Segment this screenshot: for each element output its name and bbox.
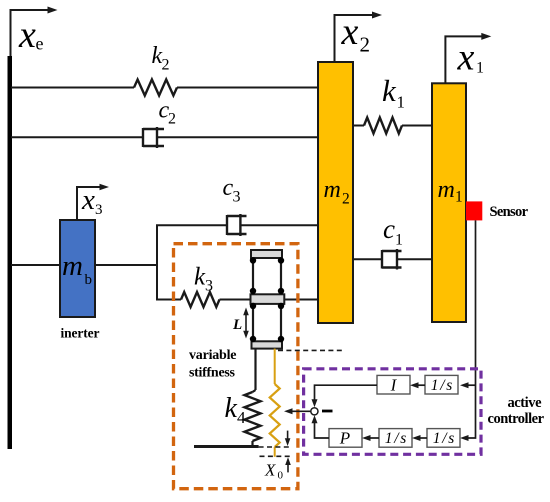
X0 down arrow (285, 431, 291, 446)
branch wire to top 1/s (464, 384, 476, 386)
spring k4 (245, 392, 261, 441)
mechanism lower links (252, 304, 254, 341)
svg-text:P: P (339, 429, 350, 448)
dashed line at ground level (259, 446, 289, 448)
output wire to spring (288, 410, 311, 412)
X0 up arrow (285, 457, 291, 472)
coordinate arrow x_1 (445, 33, 491, 83)
svg-text:x: x (341, 11, 359, 53)
arrow down into summer (312, 399, 318, 407)
svg-text:X: X (264, 461, 276, 480)
block I (377, 375, 410, 394)
svg-text:Sensor: Sensor (490, 204, 529, 220)
arrow into orange spring (284, 408, 293, 414)
mechanism pivot joints (250, 257, 284, 342)
svg-text:active: active (508, 395, 543, 411)
svg-text:3: 3 (233, 189, 241, 206)
svg-text:L: L (232, 317, 242, 333)
wire k1 right (402, 125, 432, 127)
svg-text:2: 2 (360, 33, 371, 57)
block 1/s (middle) (379, 429, 412, 448)
mechanism top bar (251, 250, 282, 258)
svg-text:x: x (18, 14, 36, 56)
coordinate arrow x_2 (335, 12, 383, 63)
svg-text:0: 0 (278, 470, 284, 482)
coordinate arrow x_3 (77, 184, 109, 220)
arrow into top 1/s (460, 382, 469, 388)
svg-text:1: 1 (476, 60, 484, 77)
svg-text:1: 1 (395, 232, 403, 249)
svg-text:1: 1 (397, 93, 406, 112)
dashed line at spring bottom (260, 455, 291, 457)
sensor signal wire (464, 220, 476, 438)
arrow 1/s to I (410, 382, 425, 388)
svg-text:k: k (225, 393, 238, 424)
vertical branch wire (156, 225, 158, 299)
spring k1 (364, 118, 402, 134)
coordinate arrow x_e (11, 7, 58, 57)
damper c1 (382, 249, 402, 270)
wire mechanism to m2 (283, 299, 319, 301)
svg-text:1/s: 1/s (431, 377, 453, 394)
wire k3 left (156, 299, 181, 301)
svg-text:stiffness: stiffness (189, 366, 236, 381)
svg-text:controller: controller (488, 411, 545, 427)
svg-text:x: x (457, 37, 475, 79)
sensor (466, 201, 482, 220)
svg-text:1/s: 1/s (385, 430, 407, 447)
svg-text:e: e (36, 34, 44, 54)
svg-text:k: k (382, 73, 397, 108)
spring k3 (181, 292, 220, 307)
mechanism middle bar (251, 294, 285, 304)
svg-text:inerter: inerter (61, 326, 100, 341)
svg-text:c: c (383, 214, 395, 244)
svg-text:3: 3 (205, 278, 213, 295)
svg-text:4: 4 (237, 408, 246, 427)
wire k2 left (11, 87, 134, 89)
summing junction (311, 408, 318, 415)
minus sign (322, 410, 333, 413)
svg-text:2: 2 (342, 191, 350, 208)
wire c2 left (11, 136, 143, 138)
arrow 1/s to P (362, 435, 379, 441)
mass m2 (318, 62, 353, 323)
wire c1 left (353, 258, 382, 260)
ground line (194, 445, 259, 448)
wire c3 right (240, 224, 319, 226)
block 1/s (bottom right) (427, 429, 460, 448)
wire c3 left (156, 224, 227, 226)
svg-text:2: 2 (162, 57, 170, 74)
svg-text:1/s: 1/s (433, 430, 455, 447)
wall (base excitation) (8, 56, 13, 449)
inerter mass m_b (60, 220, 95, 317)
svg-text:x: x (81, 184, 95, 216)
spring k2 (134, 80, 177, 96)
svg-text:m: m (62, 250, 83, 282)
mechanism bottom bar (252, 341, 283, 348)
wire k2 right (177, 87, 319, 89)
wire inerter right (95, 264, 157, 266)
block P (329, 429, 362, 448)
wire c2 right (157, 136, 319, 138)
mechanism upper links (252, 258, 254, 294)
dashed reference line at mechanism bottom (278, 349, 345, 351)
wire inerter left (11, 264, 60, 266)
rod above spring k4 (254, 349, 256, 390)
dimension arrow L (243, 308, 249, 339)
active controller dashed box (304, 369, 481, 455)
variable stiffness dashed box (174, 244, 298, 489)
svg-text:m: m (324, 177, 341, 203)
arrow into bottom-right 1/s (460, 435, 469, 441)
wire k3 right to mechanism (220, 299, 253, 301)
arrow 1/s to 1/s (412, 435, 427, 441)
svg-text:variable: variable (189, 348, 237, 363)
mass m1 (432, 83, 466, 322)
block 1/s (top) (425, 375, 458, 394)
arrow up into summer (312, 415, 318, 423)
svg-text:m: m (438, 177, 455, 203)
svg-text:2: 2 (168, 111, 176, 128)
damper c3 (227, 214, 247, 236)
svg-text:3: 3 (95, 202, 103, 218)
rod below spring k4 (251, 441, 253, 447)
wire I to summer (315, 385, 378, 402)
wire P to summer (315, 421, 330, 439)
variable stiffness actuated spring (orange) (274, 349, 276, 384)
damper c2 (143, 127, 164, 148)
wire k1 left (353, 125, 364, 127)
svg-text:b: b (85, 272, 93, 288)
wire c1 right (397, 258, 432, 260)
svg-text:1: 1 (455, 189, 463, 206)
